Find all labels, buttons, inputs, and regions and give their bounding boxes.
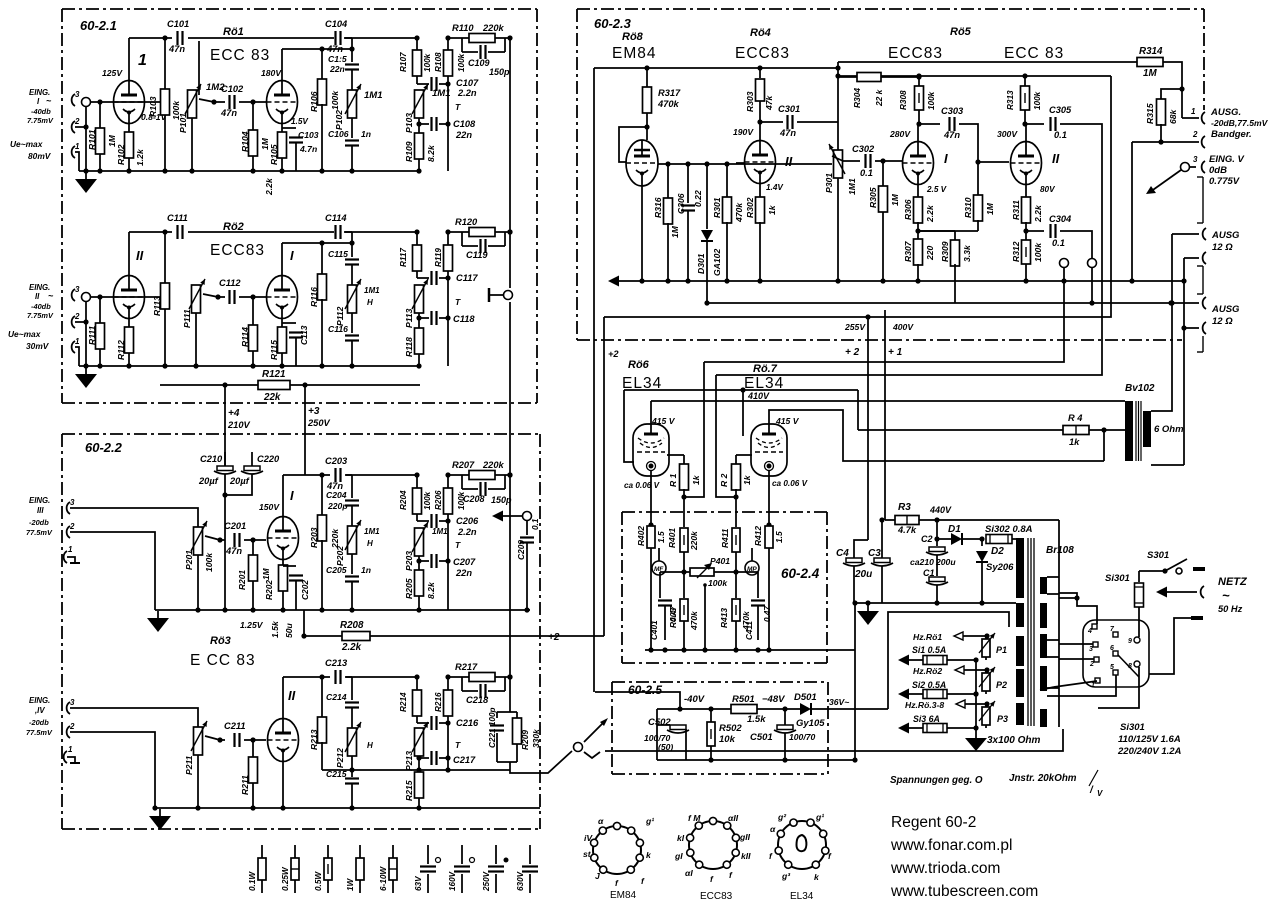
- capacitor C115: [328, 249, 359, 265]
- potentiometer P211: [184, 721, 207, 811]
- svg-text:P301: P301: [824, 173, 834, 193]
- potentiometer P101: [178, 82, 225, 174]
- svg-text:ca 0.06 V: ca 0.06 V: [772, 479, 809, 488]
- svg-text:3: 3: [1193, 155, 1198, 164]
- electrolytic C220: [225, 452, 280, 495]
- svg-text:C220: C220: [257, 454, 280, 464]
- svg-text:II: II: [136, 248, 144, 263]
- wire Roe6 cathode: [650, 476, 652, 525]
- wire Roe7 plate: [769, 410, 1104, 461]
- svg-text:ECC83: ECC83: [700, 891, 733, 902]
- svg-text:415 V: 415 V: [775, 416, 800, 426]
- svg-text:EING. V: EING. V: [1209, 154, 1245, 165]
- svg-text:-20db: -20db: [29, 718, 49, 727]
- svg-text:P213: P213: [404, 751, 414, 771]
- top rail row4: [283, 676, 417, 678]
- svg-text:R304: R304: [852, 88, 862, 108]
- svg-text:R501: R501: [732, 694, 755, 705]
- svg-text:C209: C209: [516, 540, 526, 560]
- svg-text:1M1: 1M1: [364, 527, 380, 536]
- svg-text:Hz.Rö.3-8: Hz.Rö.3-8: [905, 700, 944, 710]
- wire grid drive vert Roe6: [681, 362, 704, 500]
- svg-text:ECC83: ECC83: [735, 45, 790, 62]
- svg-text:6-10W: 6-10W: [379, 866, 388, 891]
- wire EM84 left bracket: [619, 127, 647, 162]
- bus 60-2.4 bottom: [645, 647, 855, 652]
- wire C114 down: [345, 232, 355, 257]
- label 440V: [929, 505, 952, 515]
- svg-text:C108: C108: [453, 119, 476, 129]
- svg-text:C205: C205: [326, 565, 347, 575]
- svg-text:1M: 1M: [890, 193, 900, 206]
- wire sec top: [1151, 303, 1172, 411]
- label Hz.Roe3-8: [905, 700, 990, 710]
- diode D501: [794, 692, 852, 729]
- svg-text:0.1: 0.1: [531, 518, 540, 530]
- wire bias feed: [595, 692, 680, 709]
- top rail row3: [283, 474, 417, 476]
- label 3x100 Ohm: [987, 735, 1040, 746]
- capacitor C204: [326, 490, 359, 511]
- transformer Bv102 core: [1136, 401, 1141, 461]
- svg-text:R209: R209: [520, 730, 530, 750]
- svg-text:100k: 100k: [927, 91, 936, 110]
- resistor R402: [636, 522, 666, 652]
- svg-text:2.2k: 2.2k: [1033, 204, 1043, 223]
- wire grid drive Roe6: [704, 281, 1064, 362]
- svg-text:C118: C118: [453, 314, 475, 324]
- wire wiper P301: [832, 156, 843, 161]
- socket ECC83 caption: [700, 891, 733, 902]
- wire C303 to grid II: [959, 124, 1009, 165]
- svg-text:D501: D501: [794, 692, 817, 703]
- svg-text:R316: R316: [653, 197, 663, 218]
- wire output row4 rail: [507, 516, 512, 712]
- svg-text:220: 220: [925, 245, 935, 261]
- svg-text:1: 1: [75, 142, 80, 151]
- svg-text:R303: R303: [745, 91, 755, 112]
- wire C210 bus: [222, 490, 227, 613]
- svg-text:220k: 220k: [689, 531, 699, 551]
- resistor R121: [258, 369, 290, 403]
- svg-text:C202: C202: [300, 580, 310, 600]
- svg-text:Rö5: Rö5: [950, 26, 972, 38]
- svg-text:C502: C502: [648, 717, 671, 728]
- svg-text:80V: 80V: [1040, 185, 1056, 194]
- svg-text:R402: R402: [636, 526, 646, 546]
- capacitor C101: [167, 19, 189, 54]
- resistor R202: [264, 560, 288, 638]
- svg-text:0.5W: 0.5W: [314, 871, 323, 891]
- svg-text:Jnstr. 20kOhm: Jnstr. 20kOhm: [1009, 773, 1077, 784]
- svg-text:g¹: g¹: [815, 812, 824, 822]
- svg-text:0dB: 0dB: [1209, 165, 1227, 176]
- wire C213 down: [345, 677, 352, 700]
- wire rotary 1: [1040, 681, 1097, 690]
- capacitor C106: [328, 118, 371, 174]
- wire P2 stub: [985, 670, 987, 694]
- wire input-II vertical: [83, 301, 88, 369]
- svg-text:R120: R120: [455, 217, 478, 227]
- svg-text:R314: R314: [1139, 46, 1163, 57]
- svg-text:2: 2: [74, 312, 80, 321]
- svg-text:110/125V 1.6A: 110/125V 1.6A: [1118, 734, 1181, 745]
- resistor R205: [404, 558, 436, 612]
- svg-text:12 Ω: 12 Ω: [1212, 242, 1233, 253]
- wire sec to fuse: [1059, 595, 1080, 600]
- svg-text:www.tubescreen.com: www.tubescreen.com: [890, 883, 1038, 900]
- wire jack1-I to bus: [75, 152, 79, 171]
- socket EL34: [769, 812, 832, 882]
- potentiometer P301: [824, 144, 857, 284]
- rail top 60-2.3: [594, 68, 838, 692]
- svg-text:0.1: 0.1: [860, 168, 873, 178]
- rotary pins: [1087, 624, 1140, 689]
- svg-text:2.5 V: 2.5 V: [926, 185, 948, 194]
- svg-text:470k: 470k: [734, 202, 744, 223]
- electrolytic C501: [750, 709, 816, 760]
- svg-text:1.5: 1.5: [774, 531, 784, 543]
- svg-text:20µf: 20µf: [198, 476, 219, 486]
- wire C305 out: [716, 124, 1102, 375]
- svg-text:1W: 1W: [346, 877, 355, 891]
- capacitor C112: [219, 278, 241, 304]
- svg-text:R301: R301: [712, 197, 722, 218]
- resistor R107: [399, 35, 432, 76]
- capacitor C214: [326, 692, 359, 708]
- svg-text:R315: R315: [1145, 103, 1155, 124]
- wire 410V line: [624, 387, 858, 401]
- resistor R412: [753, 522, 784, 652]
- footer text: [890, 814, 1038, 900]
- capacitor C411: [736, 572, 772, 640]
- svg-text:3x100 Ohm: 3x100 Ohm: [987, 735, 1040, 746]
- resistor R314: [1137, 46, 1163, 79]
- ground symbol row1: [75, 172, 97, 193]
- resistor R216: [434, 674, 453, 770]
- svg-text:100k: 100k: [423, 53, 432, 72]
- resistor R411: [720, 497, 740, 575]
- svg-text:R502: R502: [719, 723, 742, 734]
- svg-text:R204: R204: [399, 490, 408, 510]
- svg-text:2: 2: [1089, 661, 1094, 668]
- svg-text:470k: 470k: [689, 611, 699, 631]
- svg-text:R305: R305: [868, 187, 878, 208]
- wire jack3-III to P201: [70, 508, 198, 527]
- svg-text:ECC83: ECC83: [210, 242, 265, 259]
- wire R317 drop: [644, 65, 649, 88]
- ground heater: [965, 738, 987, 751]
- svg-text:C401: C401: [650, 620, 659, 640]
- wire +4 feed: [222, 382, 250, 470]
- triode Roe3-I: [259, 488, 299, 560]
- potentiometer P113: [404, 279, 461, 328]
- label AUSG 12 first: [1211, 230, 1240, 253]
- svg-text:C207: C207: [453, 557, 476, 567]
- svg-text:220k: 220k: [482, 460, 505, 470]
- resistor R209: [510, 712, 541, 762]
- resistor R116: [309, 240, 327, 368]
- capacitor C306: [676, 164, 703, 284]
- resistor R105: [264, 117, 309, 196]
- svg-text:−48V: −48V: [762, 694, 785, 705]
- svg-text:100/70: 100/70: [789, 732, 816, 742]
- svg-text:P103: P103: [404, 113, 414, 133]
- tube label Roe7: [744, 363, 784, 392]
- fuse Si2: [898, 680, 979, 700]
- wire C102 to grid2: [239, 99, 266, 104]
- svg-text:C201: C201: [224, 521, 246, 531]
- svg-text:C114: C114: [325, 213, 347, 223]
- label AUSG 12 second: [1211, 304, 1240, 327]
- svg-text:1M: 1M: [261, 567, 271, 580]
- section box 60-2.1: [62, 9, 537, 403]
- svg-text:C203: C203: [325, 456, 348, 466]
- wire C112 to grid2 row2: [239, 294, 266, 299]
- wire grid drive vert Roe7: [716, 375, 739, 500]
- ground bus row4: [152, 805, 540, 810]
- wire heater common: [973, 660, 978, 738]
- label 36V: [829, 697, 849, 707]
- svg-text:R206: R206: [434, 490, 443, 510]
- capacitor C105: [328, 54, 359, 74]
- svg-text:2.2n: 2.2n: [457, 88, 477, 98]
- label 6 Ohm: [1154, 424, 1184, 435]
- svg-text:0.47: 0.47: [763, 606, 772, 622]
- top rail row2: [129, 231, 417, 233]
- wire C4 feed: [854, 540, 868, 558]
- triode Roe3-II: [268, 688, 299, 762]
- svg-text:iV: iV: [584, 833, 593, 843]
- wire tone bus row4: [322, 767, 510, 772]
- svg-text:C211: C211: [224, 721, 246, 731]
- section box 60-2.2: [62, 434, 540, 829]
- svg-text:P203: P203: [404, 551, 414, 571]
- potentiometer P212: [335, 708, 373, 768]
- svg-text:7.75mV: 7.75mV: [27, 311, 54, 320]
- svg-text:Si2 0.5A: Si2 0.5A: [912, 680, 946, 690]
- svg-text:Si301: Si301: [1120, 722, 1145, 733]
- electrolytic C1: [923, 568, 948, 606]
- svg-text:C215: C215: [326, 769, 347, 779]
- svg-text:Hz.Rö1: Hz.Rö1: [913, 632, 942, 642]
- resistor R307: [903, 231, 935, 284]
- svg-text:440V: 440V: [929, 505, 952, 515]
- svg-text:gII: gII: [739, 832, 751, 842]
- resistor R315: [1145, 99, 1178, 145]
- resistor R309: [918, 231, 972, 303]
- wire to switch row4: [510, 751, 572, 773]
- resistor R204: [399, 472, 432, 514]
- wire EM84 cathode: [639, 186, 644, 284]
- svg-text:22 k: 22 k: [874, 89, 884, 107]
- legend 1W: [346, 845, 364, 893]
- wire jack3-IV to P211: [70, 708, 198, 727]
- capacitor C119: [462, 232, 505, 260]
- tube label Roe4: [735, 27, 790, 62]
- svg-text:-40V: -40V: [684, 694, 705, 705]
- svg-text:R214: R214: [399, 692, 408, 712]
- wire C211 to grid4: [244, 737, 266, 742]
- wire output row2: [509, 232, 511, 288]
- svg-text:4: 4: [1087, 628, 1092, 635]
- svg-text:gI: gI: [674, 851, 683, 861]
- svg-text:100k: 100k: [457, 53, 466, 72]
- pentode Roe7: [751, 416, 800, 476]
- rail B+ 60-2.3: [838, 73, 1111, 78]
- top rail row1: [129, 37, 417, 39]
- svg-text:C301: C301: [778, 104, 800, 114]
- svg-text:R103: R103: [148, 96, 158, 117]
- fuse Si3: [898, 714, 976, 734]
- svg-text:C208: C208: [463, 494, 485, 504]
- svg-text:R116: R116: [309, 287, 319, 307]
- wire jack2-II: [75, 319, 89, 324]
- svg-text:~: ~: [48, 291, 54, 301]
- resistor R213: [309, 674, 327, 770]
- resistor R302: [745, 183, 784, 284]
- label EING V: [1209, 154, 1245, 187]
- resistor R317: [643, 87, 682, 130]
- label AUSG Bandgeraet: [1210, 107, 1269, 140]
- resistor R1: [667, 455, 701, 497]
- svg-text:R312: R312: [1011, 241, 1021, 262]
- svg-text:Rö8: Rö8: [622, 31, 644, 43]
- svg-text:C411: C411: [745, 621, 754, 640]
- tube label Roe8 EM84: [612, 31, 657, 62]
- svg-text:Br108: Br108: [1046, 545, 1074, 556]
- svg-text:R207: R207: [452, 460, 475, 470]
- label 1.25V: [240, 620, 264, 630]
- resistor R301: [712, 164, 744, 284]
- svg-text:α: α: [598, 816, 604, 826]
- resistor R312: [1011, 231, 1043, 284]
- resistor R106: [309, 46, 340, 173]
- svg-text:0.25W: 0.25W: [281, 866, 290, 891]
- legend 0.25W: [281, 845, 299, 893]
- svg-text:Si1 0.5A: Si1 0.5A: [912, 645, 946, 655]
- svg-text:C102: C102: [221, 84, 244, 94]
- svg-text:1M1: 1M1: [847, 178, 857, 195]
- svg-text:R 2: R 2: [719, 473, 729, 487]
- svg-text:R203: R203: [309, 527, 319, 548]
- svg-text:2: 2: [69, 522, 75, 531]
- potentiometer P111: [182, 279, 205, 369]
- svg-text:220p: 220p: [327, 501, 348, 511]
- triode Roe5-I: [889, 129, 948, 185]
- ground bus row1: [79, 170, 420, 172]
- wire Roe4 plate: [759, 124, 761, 140]
- jack AUSG12-1a: [1169, 228, 1206, 306]
- resistor R103: [148, 35, 181, 173]
- wire C304 to link: [1060, 231, 1092, 258]
- svg-text:160V: 160V: [448, 870, 457, 891]
- capacitor C116: [328, 313, 359, 369]
- svg-text:I: I: [290, 488, 294, 503]
- wire jack1-II to bus: [75, 347, 79, 366]
- capacitor C104: [325, 19, 348, 54]
- potentiometer P2: [979, 667, 1007, 691]
- wire rotary 3: [1059, 643, 1093, 645]
- svg-text:R114: R114: [240, 327, 250, 347]
- resistor R117: [399, 229, 422, 271]
- fuse Si1: [898, 645, 979, 666]
- svg-text:68k: 68k: [1168, 108, 1178, 124]
- svg-text:C304: C304: [1049, 214, 1072, 224]
- svg-text:D1: D1: [948, 524, 961, 535]
- bracket AUSG low: [1197, 336, 1203, 352]
- label -48V: [762, 694, 785, 705]
- svg-text:60-2.5: 60-2.5: [628, 683, 662, 697]
- svg-text:EING.: EING.: [29, 696, 50, 705]
- capacitor C113: [282, 323, 309, 366]
- svg-text:AUSG.: AUSG.: [1210, 107, 1241, 118]
- svg-text:R102: R102: [116, 144, 126, 165]
- tube EM84: [626, 140, 658, 186]
- svg-text:77.5mV: 77.5mV: [26, 728, 53, 737]
- wire C2 drop: [934, 520, 939, 542]
- svg-text:R309: R309: [940, 241, 950, 262]
- svg-text:1k: 1k: [1069, 437, 1080, 447]
- resistor R214: [399, 674, 422, 716]
- svg-text:R308: R308: [899, 90, 908, 110]
- wire P301 top: [835, 62, 840, 150]
- svg-text:Rö6: Rö6: [628, 359, 650, 371]
- svg-text:R401: R401: [667, 528, 677, 548]
- svg-text:210V: 210V: [227, 420, 251, 430]
- capacitor C208: [462, 475, 512, 505]
- resistor R115: [269, 319, 287, 369]
- transformer Bv102 secondary: [1143, 411, 1151, 447]
- svg-text:ca210: ca210: [910, 557, 934, 567]
- resistor R305: [868, 161, 900, 284]
- svg-text:R310: R310: [963, 197, 973, 218]
- bus mid 60-2.3: [608, 276, 1187, 287]
- svg-text:I: I: [290, 248, 294, 263]
- electrolytic C3: [854, 517, 893, 603]
- svg-text:1k: 1k: [742, 474, 752, 485]
- svg-text:S301: S301: [1147, 550, 1169, 561]
- ground symbol row2: [75, 367, 97, 388]
- svg-text:180V: 180V: [261, 68, 282, 78]
- svg-text:1.5: 1.5: [656, 531, 666, 543]
- label ca006V left: [624, 481, 661, 490]
- capacitor C301: [760, 104, 838, 138]
- section box 60-2.5: [612, 682, 828, 774]
- svg-text:I: I: [944, 151, 948, 166]
- svg-text:3: 3: [70, 698, 75, 707]
- svg-text:220k: 220k: [482, 23, 505, 33]
- svg-text:C4: C4: [836, 548, 849, 559]
- triode Roe2-I: [267, 248, 298, 319]
- potentiometer P102: [334, 70, 382, 130]
- svg-text:ca 0.06 V: ca 0.06 V: [624, 481, 661, 490]
- resistor R2: [719, 455, 752, 497]
- potentiometer P203: [404, 522, 461, 571]
- svg-text:GA102: GA102: [712, 249, 722, 276]
- tube label Roe2: [210, 221, 265, 259]
- svg-text:100k: 100k: [1033, 242, 1043, 262]
- svg-text:250V: 250V: [307, 418, 331, 428]
- svg-text:R306: R306: [903, 199, 913, 220]
- svg-text:1.5k: 1.5k: [747, 714, 766, 725]
- wire C203 down: [345, 475, 352, 498]
- fuse Si301: [1105, 571, 1144, 633]
- svg-text:E CC 83: E CC 83: [190, 652, 256, 669]
- svg-text:60-2.4: 60-2.4: [781, 566, 820, 581]
- wire jack2-III down: [70, 532, 155, 610]
- svg-text:www.fonar.com.pl: www.fonar.com.pl: [890, 837, 1012, 854]
